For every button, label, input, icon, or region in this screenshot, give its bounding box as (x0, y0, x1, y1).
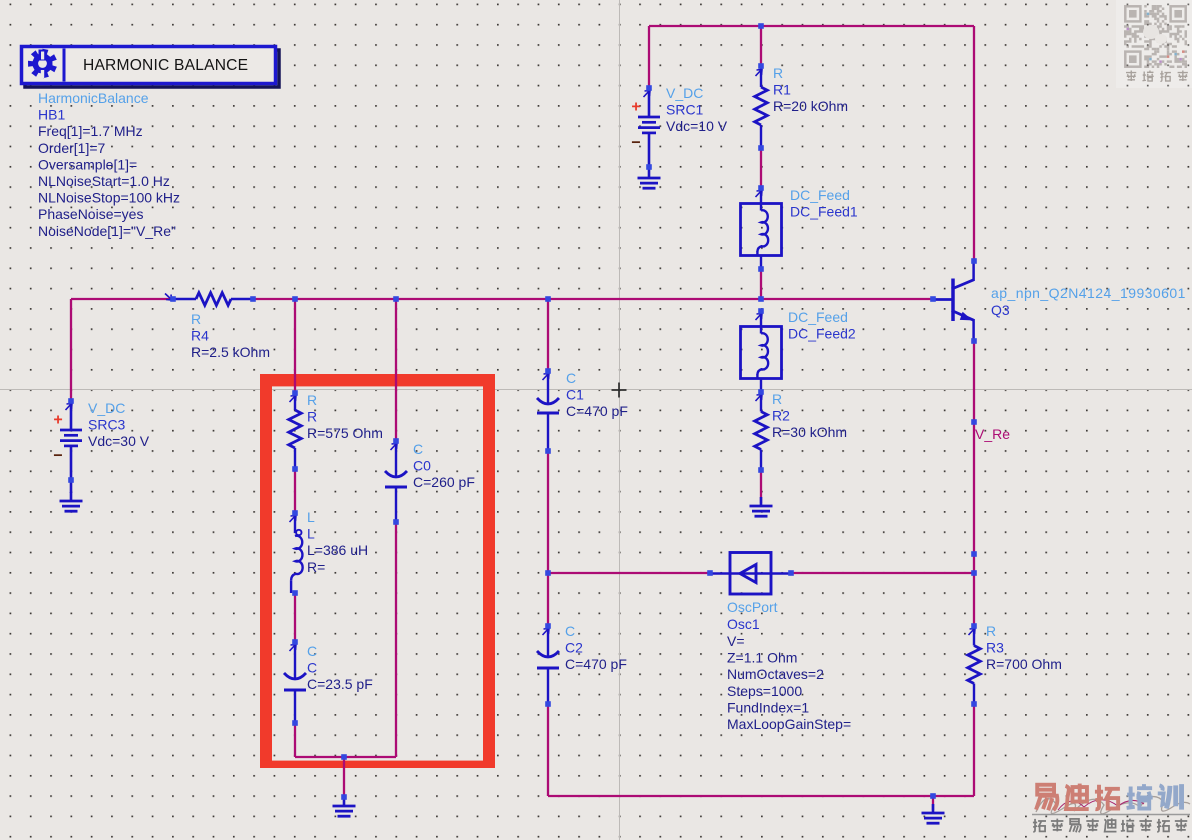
svg-text:R1: R1 (773, 82, 791, 98)
svg-text:V_Re: V_Re (975, 426, 1010, 442)
svg-text:Oversample[1]=: Oversample[1]= (38, 156, 137, 172)
svg-text:R4: R4 (191, 328, 209, 344)
svg-text:C0: C0 (413, 458, 431, 474)
svg-text:PhaseNoise=yes: PhaseNoise=yes (38, 206, 143, 222)
svg-text:MaxLoopGainStep=: MaxLoopGainStep= (727, 716, 851, 732)
svg-text:+: + (631, 99, 640, 116)
svg-text:R=30 kOhm: R=30 kOhm (772, 424, 847, 440)
svg-text:Vdc=30 V: Vdc=30 V (88, 433, 150, 449)
svg-text:C2: C2 (565, 640, 583, 656)
svg-text:−: − (631, 135, 640, 152)
svg-text:OscPort: OscPort (727, 599, 778, 615)
svg-text:Order[1]=7: Order[1]=7 (38, 140, 106, 156)
svg-text:R: R (191, 311, 201, 327)
svg-text:V_DC: V_DC (88, 400, 125, 416)
svg-text:NLNoiseStart=1.0 Hz: NLNoiseStart=1.0 Hz (38, 173, 170, 189)
svg-text:R=700 Ohm: R=700 Ohm (986, 656, 1062, 672)
svg-text:R=575 Ohm: R=575 Ohm (307, 425, 383, 441)
svg-text:R: R (773, 65, 783, 81)
svg-text:V_DC: V_DC (666, 85, 703, 101)
svg-text:L: L (307, 526, 315, 542)
svg-text:C=470 pF: C=470 pF (565, 656, 627, 672)
svg-text:SRC3: SRC3 (88, 417, 126, 433)
svg-text:C: C (307, 660, 317, 676)
svg-text:NLNoiseStop=100 kHz: NLNoiseStop=100 kHz (38, 190, 180, 206)
svg-text:Steps=1000: Steps=1000 (727, 683, 802, 699)
svg-text:R: R (986, 623, 996, 639)
svg-text:R: R (772, 391, 782, 407)
svg-text:C=260 pF: C=260 pF (413, 474, 475, 490)
svg-text:R=20 kOhm: R=20 kOhm (773, 98, 848, 114)
svg-text:C1: C1 (566, 387, 584, 403)
svg-text:C: C (566, 370, 576, 386)
svg-text:DC_Feed2: DC_Feed2 (788, 326, 856, 342)
svg-text:R=: R= (307, 559, 325, 575)
svg-text:R=2.5 kOhm: R=2.5 kOhm (191, 344, 270, 360)
svg-text:V=: V= (727, 633, 745, 649)
svg-text:L=386 uH: L=386 uH (307, 542, 368, 558)
svg-text:R: R (307, 409, 317, 425)
svg-text:Freq[1]=1.7 MHz: Freq[1]=1.7 MHz (38, 123, 143, 139)
svg-text:HarmonicBalance: HarmonicBalance (38, 90, 149, 106)
svg-text:R2: R2 (772, 408, 790, 424)
svg-text:ap_npn_Q2N4124_19930601: ap_npn_Q2N4124_19930601 (991, 285, 1186, 301)
svg-text:DC_Feed1: DC_Feed1 (790, 204, 858, 220)
svg-text:−: − (53, 448, 62, 465)
svg-text:L: L (307, 509, 315, 525)
svg-text:Q3: Q3 (991, 302, 1010, 318)
svg-text:C: C (565, 623, 575, 639)
svg-text:HB1: HB1 (38, 107, 65, 123)
svg-text:C: C (307, 643, 317, 659)
svg-text:DC_Feed: DC_Feed (790, 187, 850, 203)
svg-text:Vdc=10 V: Vdc=10 V (666, 118, 728, 134)
svg-text:SRC1: SRC1 (666, 102, 704, 118)
svg-text:Osc1: Osc1 (727, 616, 760, 632)
svg-text:DC_Feed: DC_Feed (788, 309, 848, 325)
svg-text:NoiseNode[1]="V_Re": NoiseNode[1]="V_Re" (38, 223, 176, 239)
svg-text:C: C (413, 441, 423, 457)
svg-text:+: + (53, 412, 62, 429)
svg-text:R: R (307, 392, 317, 408)
svg-text:NumOctaves=2: NumOctaves=2 (727, 666, 824, 682)
svg-text:C=23.5 pF: C=23.5 pF (307, 676, 373, 692)
svg-text:HARMONIC BALANCE: HARMONIC BALANCE (83, 57, 248, 74)
svg-text:FundIndex=1: FundIndex=1 (727, 699, 809, 715)
svg-text:R3: R3 (986, 640, 1004, 656)
svg-text:C=470 pF: C=470 pF (566, 403, 628, 419)
svg-text:Z=1.1 Ohm: Z=1.1 Ohm (727, 650, 797, 666)
